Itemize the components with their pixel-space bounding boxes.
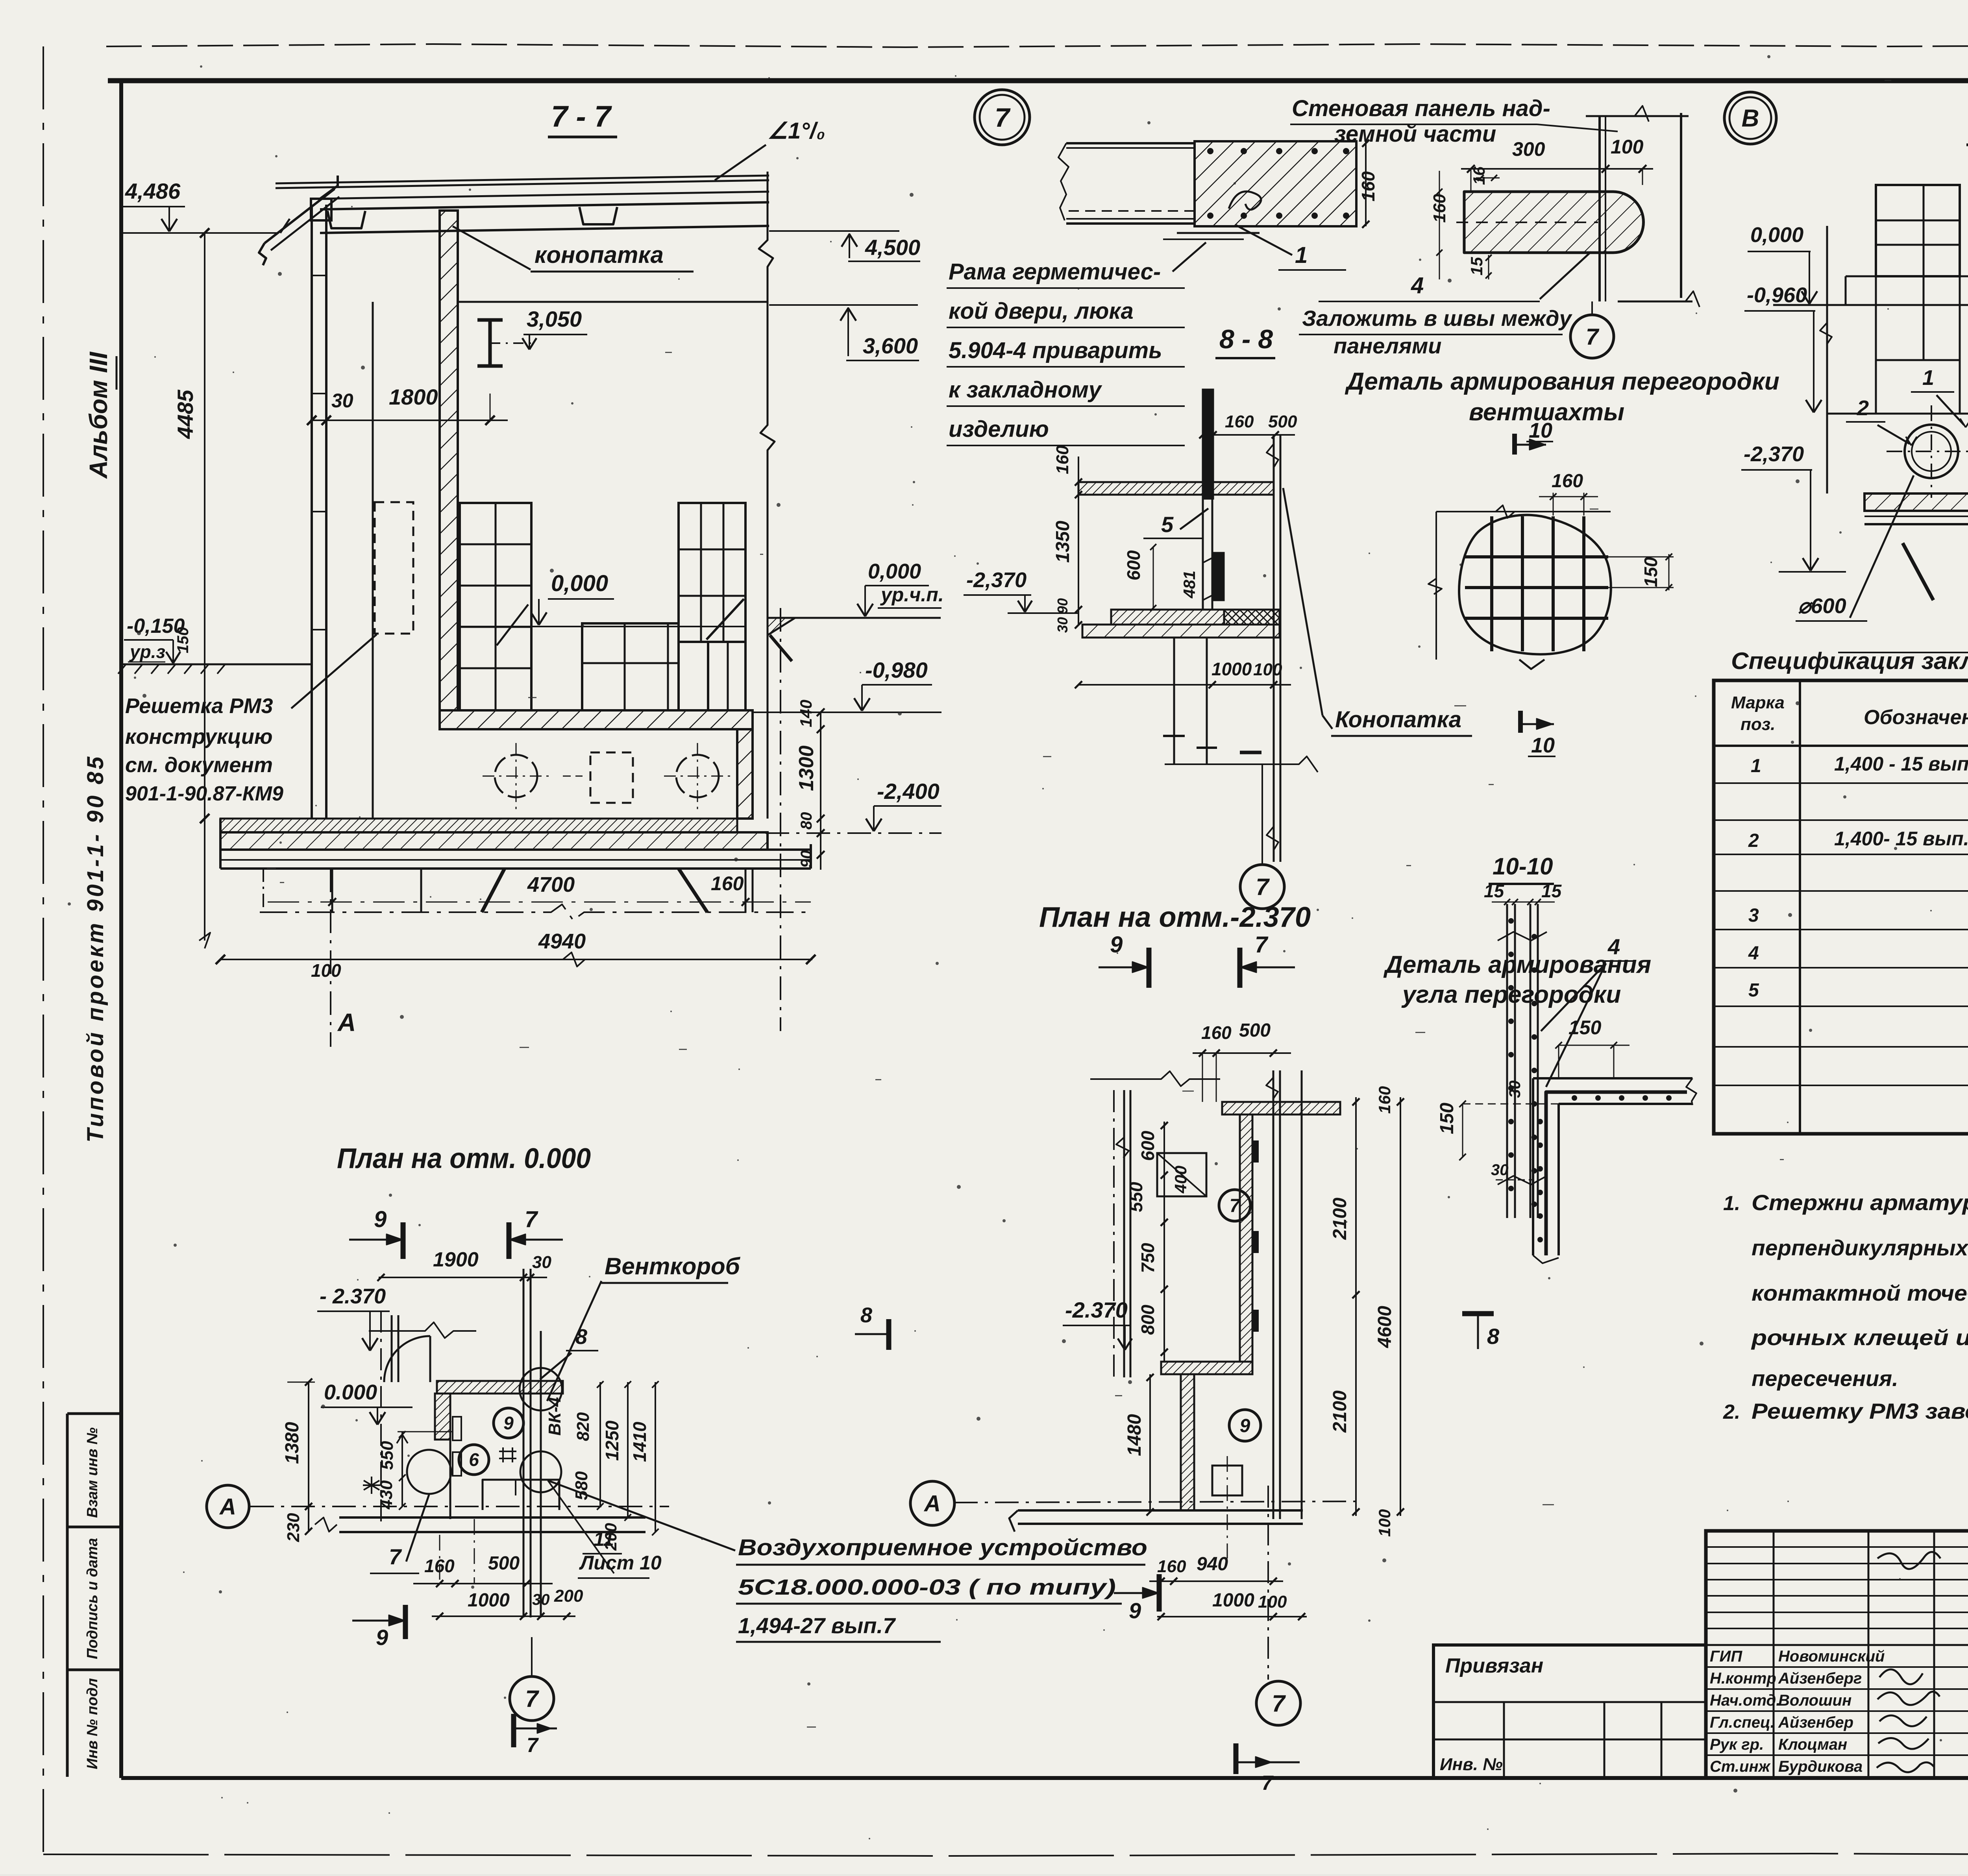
9-9 below floor xyxy=(1903,543,1933,600)
svg-text:4600: 4600 xyxy=(1374,1306,1395,1348)
svg-text:1,494-27 вып.7: 1,494-27 вып.7 xyxy=(738,1613,896,1638)
svg-text:А: А xyxy=(923,1491,941,1516)
svg-text:1: 1 xyxy=(1751,756,1761,776)
right boundary break line xyxy=(759,172,775,819)
plan top break line xyxy=(1090,1071,1220,1086)
svg-text:Стеновая панель над-: Стеновая панель над- xyxy=(1292,96,1550,121)
pipe circle 2 xyxy=(676,755,719,797)
svg-text:15: 15 xyxy=(1541,881,1562,901)
svg-text:Волошин: Волошин xyxy=(1778,1692,1851,1709)
svg-text:Инв. №: Инв. № xyxy=(1440,1755,1503,1774)
stamp label rows xyxy=(1706,1666,1968,1668)
basement right wall xyxy=(737,729,753,819)
roof slab layers xyxy=(276,176,769,183)
svg-text:1: 1 xyxy=(1295,242,1308,268)
svg-text:1000: 1000 xyxy=(1212,1590,1254,1611)
section mark 9 top plan0 xyxy=(401,1222,406,1259)
svg-text:160: 160 xyxy=(1552,471,1583,492)
10-10 rebar dots xyxy=(1509,919,1513,923)
plan0 circle 9 xyxy=(494,1408,523,1438)
svg-text:5.904-4 приварить: 5.904-4 приварить xyxy=(949,338,1162,363)
svg-text:перпендикулярных направлений,: перпендикулярных направлений, каждой сет… xyxy=(1752,1235,1968,1260)
svg-text:4: 4 xyxy=(1411,273,1424,298)
svg-text:⌀600: ⌀600 xyxy=(1798,594,1846,618)
svg-text:30: 30 xyxy=(1491,1161,1509,1179)
svg-text:Заложить в швы между: Заложить в швы между xyxy=(1302,306,1572,331)
central hatched wall xyxy=(440,211,458,710)
svg-text:7: 7 xyxy=(1586,324,1600,349)
section mark 7 bottom plan237 xyxy=(1234,1743,1239,1774)
svg-text:Привязан: Привязан xyxy=(1445,1654,1543,1677)
section flag 10 top xyxy=(1512,434,1517,455)
svg-text:90: 90 xyxy=(798,850,815,868)
svg-text:500: 500 xyxy=(1268,412,1297,431)
svg-text:150: 150 xyxy=(1641,557,1661,587)
section flag 10 bottom xyxy=(1518,711,1523,733)
svg-text:Клоцман: Клоцман xyxy=(1778,1736,1847,1753)
svg-text:160: 160 xyxy=(1157,1557,1186,1576)
left page edge line xyxy=(43,46,44,1865)
svg-text:800: 800 xyxy=(1138,1305,1158,1335)
plan0 top wall hatched xyxy=(437,1381,563,1394)
svg-text:100: 100 xyxy=(1375,1509,1394,1537)
svg-text:150: 150 xyxy=(1568,1017,1602,1039)
svg-text:Взам инв №: Взам инв № xyxy=(84,1427,101,1518)
plan0 niche plates xyxy=(453,1417,461,1440)
plan embedded plates xyxy=(1252,1141,1258,1162)
9-9 band to -0,960 xyxy=(1875,305,1877,414)
section flag 8 right of plan237 xyxy=(1462,1311,1494,1316)
svg-text:конопатка: конопатка xyxy=(535,242,664,268)
svg-text:Стержни арматуры в местах: Стержни арматуры в местах пересечения дв… xyxy=(1752,1190,1968,1215)
floor slab bottom lines xyxy=(220,848,811,851)
svg-text:7: 7 xyxy=(1256,874,1270,900)
svg-text:1.: 1. xyxy=(1723,1192,1740,1215)
svg-text:Подпись и дата: Подпись и дата xyxy=(84,1538,101,1659)
signatures squiggles xyxy=(1877,1552,1940,1569)
frame bottom thick line xyxy=(121,1776,1968,1780)
svg-text:3: 3 xyxy=(1748,905,1759,926)
window grid block left G1 xyxy=(460,503,531,710)
plan0 left axis dash-dot xyxy=(380,1310,382,1527)
svg-text:1,400- 15 вып.1: 1,400- 15 вып.1 xyxy=(1834,828,1968,850)
svg-text:- 2.370: - 2.370 xyxy=(320,1285,386,1308)
svg-text:1250: 1250 xyxy=(602,1420,622,1461)
svg-text:Деталь армирования перегородк: Деталь армирования перегородки xyxy=(1345,368,1779,395)
plan right dim chains xyxy=(1355,1097,1357,1516)
below slab supports xyxy=(263,869,264,912)
8-8 right wall xyxy=(1273,435,1275,862)
svg-text:1000: 1000 xyxy=(1212,659,1252,679)
node 7 anchor hook xyxy=(1229,191,1261,209)
svg-text:7: 7 xyxy=(527,1734,539,1757)
svg-text:2100: 2100 xyxy=(1330,1198,1350,1240)
svg-text:-2,370: -2,370 xyxy=(1744,442,1804,466)
svg-text:0,000: 0,000 xyxy=(868,560,921,583)
svg-text:30: 30 xyxy=(532,1591,550,1608)
svg-text:9: 9 xyxy=(374,1207,387,1232)
vertical dim 4485 xyxy=(204,233,205,941)
circle 7 bottom plan237 xyxy=(1256,1681,1300,1725)
svg-text:940: 940 xyxy=(1197,1554,1228,1575)
svg-text:820: 820 xyxy=(573,1412,593,1441)
svg-text:400: 400 xyxy=(1171,1166,1190,1194)
svg-text:10: 10 xyxy=(1529,419,1552,442)
svg-text:15: 15 xyxy=(1484,881,1505,901)
svg-text:земной части: земной части xyxy=(1334,121,1496,147)
svg-text:8: 8 xyxy=(575,1325,587,1349)
8-8 ceiling slab xyxy=(1078,482,1274,495)
svg-text:300: 300 xyxy=(1512,138,1545,160)
left margin stamp boxes xyxy=(66,1414,69,1777)
svg-text:8: 8 xyxy=(860,1303,872,1327)
node 4 wall verticals xyxy=(1598,116,1601,301)
svg-text:9: 9 xyxy=(503,1413,514,1433)
svg-text:Обозначение: Обозначение xyxy=(1864,706,1968,729)
svg-text:7: 7 xyxy=(525,1686,539,1712)
svg-text:9: 9 xyxy=(1110,932,1123,957)
svg-text:750: 750 xyxy=(1138,1243,1158,1273)
svg-text:Конопатка: Конопатка xyxy=(1335,707,1461,732)
10-10 break marks xyxy=(1498,932,1547,941)
svg-text:160: 160 xyxy=(1201,1022,1232,1043)
plan duct right wall xyxy=(1273,1070,1274,1519)
plan0 room walls xyxy=(435,1394,450,1440)
9-9 upper left grid xyxy=(1876,185,1960,276)
section flag 8 plan0 right xyxy=(886,1319,892,1350)
svg-text:140: 140 xyxy=(797,700,815,727)
svg-text:500: 500 xyxy=(1239,1020,1271,1041)
8-8 below floor supports xyxy=(1173,638,1175,763)
svg-text:Лист 10: Лист 10 xyxy=(579,1552,662,1574)
plan hatch opening box xyxy=(1157,1153,1206,1196)
svg-text:пересечения.: пересечения. xyxy=(1752,1366,1898,1391)
plan0 inner dims 550 430 xyxy=(401,1432,403,1506)
svg-text:4,500: 4,500 xyxy=(865,235,920,260)
frame top thick line xyxy=(108,78,1968,83)
svg-text:-0,960: -0,960 xyxy=(1747,283,1807,307)
svg-text:7: 7 xyxy=(389,1544,402,1569)
ground line left xyxy=(122,664,313,665)
svg-text:ур.ч.п.: ур.ч.п. xyxy=(880,584,944,606)
section mark 9 bottom plan0 xyxy=(403,1605,408,1639)
svg-text:2100: 2100 xyxy=(1330,1390,1350,1433)
svg-text:10: 10 xyxy=(1531,734,1555,757)
zh symbol xyxy=(499,1447,516,1462)
long leader to device xyxy=(548,1480,735,1551)
8-8 top wall bar xyxy=(1203,390,1213,499)
circle 7 below 8-8 xyxy=(1240,865,1284,909)
svg-text:200: 200 xyxy=(554,1586,583,1606)
svg-text:Инв № подл: Инв № подл xyxy=(84,1678,101,1769)
svg-text:кой двери, люка: кой двери, люка xyxy=(949,298,1134,324)
dashed square pit xyxy=(590,752,633,803)
plan left axis dash-dot xyxy=(1113,1090,1115,1377)
svg-text:Рама герметичес-: Рама герметичес- xyxy=(949,259,1161,285)
stamp signature section verticals xyxy=(1773,1531,1775,1778)
svg-text:7: 7 xyxy=(1272,1690,1286,1717)
svg-text:2.: 2. xyxy=(1723,1401,1740,1423)
svg-text:7: 7 xyxy=(525,1207,538,1232)
right dim chain xyxy=(820,712,821,870)
svg-text:Айзенбер: Айзенбер xyxy=(1778,1714,1853,1731)
section mark 7 below circle xyxy=(511,1714,516,1747)
svg-text:7 - 7: 7 - 7 xyxy=(551,100,612,133)
svg-text:5: 5 xyxy=(1748,980,1759,1001)
plan left dim column xyxy=(1163,1122,1165,1362)
svg-text:100: 100 xyxy=(311,960,341,981)
8-8 floor slabs xyxy=(1111,610,1224,625)
left wall xyxy=(311,205,313,818)
svg-text:5С18.000.000-03 ( по типу): 5С18.000.000-03 ( по типу) xyxy=(738,1575,1116,1599)
roof rib channels xyxy=(327,211,365,228)
svg-text:30: 30 xyxy=(331,390,353,412)
eaves gutter xyxy=(264,189,335,243)
svg-text:600: 600 xyxy=(1138,1131,1158,1161)
svg-text:1: 1 xyxy=(1922,366,1934,390)
svg-text:Новоминский: Новоминский xyxy=(1778,1648,1885,1665)
svg-text:4700: 4700 xyxy=(527,873,575,896)
plan0 dim 1380 230 xyxy=(308,1382,309,1531)
plan vertical hatched partition xyxy=(1240,1115,1252,1362)
node 4 hatched panel with round end xyxy=(1464,192,1644,253)
plan top hatched wall strip xyxy=(1222,1102,1340,1115)
plan0 big circle left xyxy=(407,1450,451,1494)
right side level marks xyxy=(769,230,899,232)
svg-text:0.000: 0.000 xyxy=(324,1381,377,1404)
floor slab screed band xyxy=(220,819,737,832)
svg-text:1380: 1380 xyxy=(282,1422,303,1464)
svg-text:4940: 4940 xyxy=(538,930,586,953)
plan circle 9 xyxy=(1229,1410,1261,1441)
svg-text:550: 550 xyxy=(377,1441,397,1470)
10-10 bars xyxy=(1506,904,1508,1218)
svg-text:4,486: 4,486 xyxy=(125,179,181,203)
leader to rama text xyxy=(1173,242,1206,272)
8-8 partition below ceiling xyxy=(1202,495,1204,610)
svg-text:Бурдикова: Бурдикова xyxy=(1778,1758,1863,1775)
svg-text:Деталь армирования: Деталь армирования xyxy=(1383,951,1651,978)
svg-text:230: 230 xyxy=(284,1513,303,1542)
node circle 7 xyxy=(975,90,1030,145)
svg-text:Спецификация закладных изде: Спецификация закладных изделий вентшахты xyxy=(1731,648,1968,674)
corner rebar L bar xyxy=(1546,1092,1687,1255)
9-9 band at 0,000 xyxy=(1773,304,1968,306)
page outer rough top edge xyxy=(106,44,1968,47)
ur.ch.p. exterior ground right xyxy=(768,617,941,619)
node 4 wall top/bottom lines xyxy=(1586,115,1689,117)
svg-text:2: 2 xyxy=(1748,830,1759,851)
svg-text:5: 5 xyxy=(1161,512,1174,537)
svg-text:30: 30 xyxy=(1054,617,1071,633)
section mark 9 bottom xyxy=(1157,1574,1162,1612)
svg-text:В: В xyxy=(1742,105,1759,132)
svg-text:Решетка РМ3: Решетка РМ3 xyxy=(125,694,273,718)
plan0 ventkorob circles xyxy=(520,1368,562,1410)
section mark 7 top xyxy=(1237,948,1243,988)
stamp thin top rows xyxy=(1706,1546,1968,1548)
9-9 lower hall pipes xyxy=(1905,425,1958,478)
svg-text:Нач.отд.: Нач.отд. xyxy=(1710,1692,1780,1709)
svg-text:∠1°/₀: ∠1°/₀ xyxy=(768,118,825,144)
svg-text:Айзенберг: Айзенберг xyxy=(1778,1670,1862,1687)
svg-text:рочных клещей или связыв: рочных клещей или связывать во всех точк… xyxy=(1751,1325,1968,1350)
svg-text:-0,980: -0,980 xyxy=(865,658,928,682)
svg-text:100: 100 xyxy=(1611,136,1644,158)
svg-text:7: 7 xyxy=(1230,1196,1241,1216)
svg-text:ур.з: ур.з xyxy=(129,641,165,662)
9-9 floor slab xyxy=(1864,493,1968,511)
svg-text:30: 30 xyxy=(532,1253,551,1272)
node 7 detail: floor slab xyxy=(1066,142,1195,144)
svg-text:поз.: поз. xyxy=(1740,715,1775,734)
svg-text:160: 160 xyxy=(711,872,744,895)
svg-text:15: 15 xyxy=(1467,257,1486,275)
svg-text:Ст.инж: Ст.инж xyxy=(1710,1758,1771,1775)
mesh bottom break xyxy=(1519,660,1544,669)
plan bottom hatched strip xyxy=(1161,1362,1252,1374)
svg-text:1,400 - 15 вып.1: 1,400 - 15 вып.1 xyxy=(1834,753,1968,775)
stamp outer xyxy=(1706,1531,1968,1778)
svg-text:-2,370: -2,370 xyxy=(966,568,1027,592)
svg-text:План на отм.-2.370: План на отм.-2.370 xyxy=(1039,902,1311,933)
svg-text:Гл.спец.: Гл.спец. xyxy=(1710,1714,1775,1731)
plan0 circle 6 xyxy=(459,1445,489,1475)
svg-text:100: 100 xyxy=(1253,660,1282,679)
svg-text:ГИП: ГИП xyxy=(1710,1648,1742,1665)
svg-text:7: 7 xyxy=(1261,1772,1274,1795)
svg-text:1800: 1800 xyxy=(389,384,438,409)
svg-text:см. документ: см. документ xyxy=(125,753,273,777)
corner detail walls xyxy=(1533,1077,1692,1079)
section mark 9 top xyxy=(1147,948,1152,988)
basement step wall strip xyxy=(440,710,753,729)
node 7 bottom lines xyxy=(1177,232,1260,234)
plan circle 7 xyxy=(1219,1190,1250,1221)
svg-text:901-1-90.87-КМ9: 901-1-90.87-КМ9 xyxy=(125,782,283,805)
svg-text:1000: 1000 xyxy=(468,1590,510,1611)
svg-text:160: 160 xyxy=(1053,445,1072,474)
plan0 top break line xyxy=(369,1322,476,1338)
section mark 7 top plan0 xyxy=(507,1222,512,1259)
svg-text:9: 9 xyxy=(376,1625,388,1650)
plan0 door arc xyxy=(384,1336,430,1382)
svg-text:План на отм. 0.000: План на отм. 0.000 xyxy=(337,1143,591,1174)
frame left thick line xyxy=(119,81,123,1778)
ventkorob verticals xyxy=(523,1269,525,1617)
node 7 detail: hatched panel xyxy=(1195,141,1356,226)
pipe circle 1 xyxy=(495,755,537,797)
middle grid block G4 xyxy=(582,623,679,710)
svg-text:Н.контр: Н.контр xyxy=(1710,1670,1776,1687)
plan0 axis A xyxy=(207,1485,249,1528)
svg-text:Марка: Марка xyxy=(1731,693,1785,712)
svg-text:100: 100 xyxy=(1258,1592,1287,1612)
asterisk xyxy=(363,1477,380,1494)
svg-text:1300: 1300 xyxy=(795,745,818,791)
svg-text:16: 16 xyxy=(1470,166,1488,185)
inner wall face line xyxy=(372,302,374,818)
mesh blob outline xyxy=(1459,515,1611,654)
I-beam symbol and level 3,050 xyxy=(488,320,492,366)
node circle 8 xyxy=(1724,92,1776,144)
svg-text:Альбом III: Альбом III xyxy=(84,351,113,479)
svg-text:Венткороб: Венткороб xyxy=(605,1253,741,1279)
axis A circle plan237 xyxy=(910,1481,954,1525)
svg-text:к закладному: к закладному xyxy=(949,377,1102,403)
page bottom rough edge xyxy=(43,1854,1968,1856)
svg-text:3,050: 3,050 xyxy=(527,307,582,331)
svg-text:600: 600 xyxy=(1123,550,1144,580)
svg-text:Воздухоприемное устройство: Воздухоприемное устройство xyxy=(738,1535,1147,1560)
svg-text:-2,400: -2,400 xyxy=(877,779,940,804)
svg-text:150: 150 xyxy=(1437,1103,1458,1134)
svg-text:конструкцию: конструкцию xyxy=(125,725,273,749)
svg-text:А: А xyxy=(337,1008,356,1037)
axis line right of 7-7 xyxy=(780,608,781,1031)
svg-text:160: 160 xyxy=(1375,1086,1394,1114)
mesh grid bars xyxy=(1490,516,1493,651)
svg-text:0,000: 0,000 xyxy=(551,571,608,596)
window grid block right G2 xyxy=(679,503,745,642)
svg-text:10-10: 10-10 xyxy=(1493,853,1553,880)
svg-text:160: 160 xyxy=(1225,412,1254,431)
svg-text:ВК-4: ВК-4 xyxy=(545,1397,564,1436)
plan bottom wall axis A xyxy=(1018,1509,1303,1512)
svg-text:30: 30 xyxy=(1506,1081,1524,1098)
svg-text:150: 150 xyxy=(174,627,192,653)
svg-text:6: 6 xyxy=(469,1449,479,1470)
ceiling line xyxy=(458,301,768,303)
svg-text:4485: 4485 xyxy=(173,390,198,439)
svg-text:9: 9 xyxy=(1240,1416,1250,1436)
svg-text:А: А xyxy=(219,1494,236,1519)
node circle 7 small xyxy=(1570,315,1614,358)
svg-text:изделию: изделию xyxy=(949,416,1049,442)
corner break ends xyxy=(1533,1255,1559,1263)
svg-text:481: 481 xyxy=(1180,571,1199,599)
svg-text:90: 90 xyxy=(1054,598,1071,614)
plan0 right dim chains xyxy=(599,1382,601,1506)
svg-text:500: 500 xyxy=(488,1553,520,1574)
svg-text:0,000: 0,000 xyxy=(1750,223,1803,247)
svg-text:8 - 8: 8 - 8 xyxy=(1219,324,1273,354)
svg-text:7: 7 xyxy=(1255,932,1269,957)
plan0 small box xyxy=(483,1480,559,1510)
svg-text:1900: 1900 xyxy=(433,1248,479,1271)
mesh left bracket dim xyxy=(1435,512,1437,660)
floor slab main band xyxy=(220,832,768,850)
svg-text:4: 4 xyxy=(1748,943,1759,964)
svg-text:-2.370: -2.370 xyxy=(1065,1297,1128,1322)
svg-text:1410: 1410 xyxy=(629,1421,650,1462)
svg-text:550: 550 xyxy=(1126,1182,1146,1212)
svg-text:160: 160 xyxy=(1358,171,1378,201)
svg-text:2: 2 xyxy=(1857,396,1869,420)
dashed door opening xyxy=(375,502,413,634)
9-9 left boundary wall xyxy=(1826,226,1828,493)
9-9 level -0,960 line xyxy=(1827,413,1968,415)
svg-text:80: 80 xyxy=(798,812,815,830)
svg-text:1480: 1480 xyxy=(1124,1414,1145,1456)
svg-text:8: 8 xyxy=(1487,1324,1500,1349)
svg-text:Рук гр.: Рук гр. xyxy=(1710,1736,1764,1753)
privyazan box xyxy=(1433,1645,1706,1778)
svg-text:Типовой проект 901-1- 90 85: Типовой проект 901-1- 90 85 xyxy=(83,754,108,1143)
svg-text:угла перегородки: угла перегородки xyxy=(1401,981,1621,1008)
svg-text:контактной точечной электр: контактной точечной электросваркой с пом… xyxy=(1752,1281,1968,1305)
svg-text:7: 7 xyxy=(995,103,1011,133)
